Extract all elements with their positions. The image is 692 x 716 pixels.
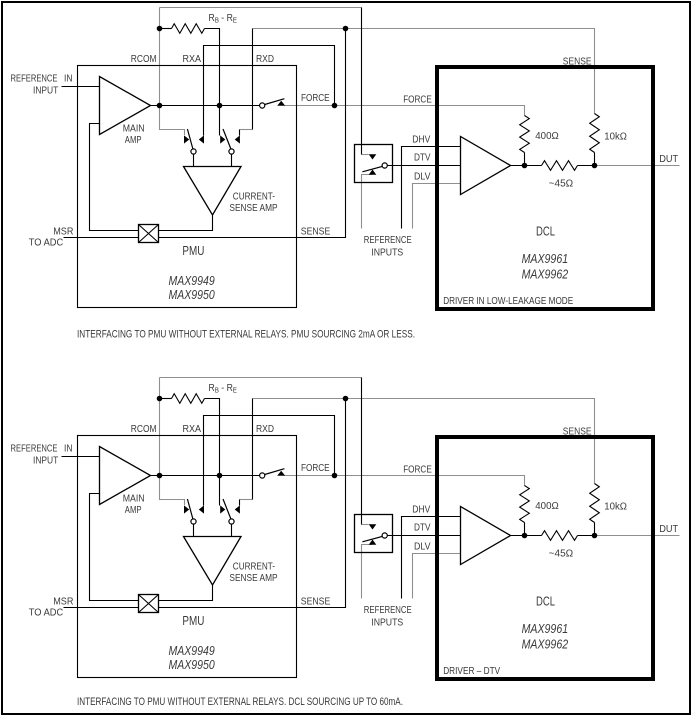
- svg-text:SENSE: SENSE: [301, 227, 331, 238]
- svg-text:RB - RE: RB - RE: [209, 13, 238, 25]
- svg-text:10kΩ: 10kΩ: [604, 502, 627, 513]
- svg-text:FORCE: FORCE: [403, 464, 432, 475]
- node DUT junction circuit 1: [592, 163, 598, 169]
- node SENSE to top net junction circuit 2: [343, 396, 349, 402]
- svg-text:RB - RE: RB - RE: [209, 383, 238, 395]
- svg-text:DTV: DTV: [414, 522, 431, 533]
- svg-text:MAX9950: MAX9950: [169, 287, 216, 302]
- svg-text:DTV: DTV: [414, 152, 431, 163]
- switch FORCE pole circle circuit 1: [260, 103, 265, 108]
- svg-text:MAIN: MAIN: [123, 124, 145, 135]
- wire RCOM to relay box vertical circuit 1: [361, 8, 363, 145]
- svg-text:RXD: RXD: [256, 424, 274, 435]
- switch S2 RXD contact wire circuit 2: [239, 500, 241, 506]
- wire S1 pole to current-sense amp circuit 1: [193, 154, 195, 166]
- switch S2 center contact arrow circuit 2: [220, 505, 225, 513]
- wire RXD vertical circuit 1: [252, 29, 254, 130]
- svg-text:FORCE: FORCE: [301, 463, 330, 474]
- svg-text:RCOM: RCOM: [131, 424, 157, 435]
- svg-text:RXD: RXD: [256, 54, 274, 65]
- svg-text:MAX9962: MAX9962: [522, 266, 569, 281]
- resistor RB-RE circuit 1: [160, 28, 172, 30]
- switch FORCE blade circuit 2: [265, 469, 285, 475]
- svg-text:DCL: DCL: [536, 224, 555, 239]
- svg-text:INPUTS: INPUTS: [371, 247, 403, 258]
- svg-text:AMP: AMP: [125, 135, 142, 146]
- node driver output junction circuit 2: [522, 533, 528, 539]
- switch S1 blade circuit 1: [187, 129, 193, 149]
- wire RXA to FORCE bypass circuit 1: [204, 46, 335, 136]
- op-amp main amp circuit 2: [100, 447, 151, 505]
- node driver output junction circuit 1: [522, 163, 528, 169]
- svg-text:PMU: PMU: [182, 613, 204, 628]
- relay K1 blade circuit 1: [362, 166, 382, 171]
- switch S2 center contact arrow circuit 1: [220, 135, 225, 143]
- svg-text:RXA: RXA: [183, 54, 202, 65]
- wire RXA to FORCE bypass circuit 2: [204, 416, 335, 506]
- DCL block MAX9961/MAX9962 circuit 2: [437, 437, 653, 679]
- DCL block MAX9961/MAX9962 circuit 1: [437, 67, 653, 309]
- wire RXD switch contact stub gray circuit 1: [240, 129, 253, 131]
- switch S1 RXA contact arrow circuit 1: [199, 135, 204, 143]
- PMU block MAX9949/MAX9950 circuit 2: [78, 436, 297, 678]
- wire driver output circuit 2: [511, 535, 542, 537]
- switch FORCE contact arrow circuit 1: [277, 101, 285, 106]
- svg-text:MAX9962: MAX9962: [522, 636, 569, 651]
- op-amp driver circuit 1: [461, 137, 511, 195]
- switch FORCE contact arrow circuit 2: [277, 471, 285, 476]
- svg-text:MAIN: MAIN: [123, 494, 145, 505]
- wire RXD vertical circuit 2: [252, 399, 254, 500]
- switch S2 center contact wire circuit 1: [219, 106, 221, 136]
- switch S1 pole circle circuit 2: [191, 519, 196, 524]
- svg-text:SENSE: SENSE: [563, 426, 592, 437]
- svg-text:400Ω: 400Ω: [535, 131, 559, 142]
- switch S2 blade circuit 1: [223, 129, 231, 149]
- svg-text:INTERFACING TO PMU WITHOUT EXT: INTERFACING TO PMU WITHOUT EXTERNAL RELA…: [77, 328, 415, 340]
- wire DLV reference input gray circuit 1: [413, 184, 461, 229]
- wire DHV reference input circuit 1: [402, 147, 461, 229]
- node RXA bypass junction on FORCE net circuit 2: [332, 473, 338, 479]
- svg-text:DRIVER – DTV: DRIVER – DTV: [443, 666, 500, 677]
- svg-text:MAX9949: MAX9949: [169, 643, 215, 658]
- node SENSE to top net junction circuit 1: [343, 26, 349, 32]
- svg-text:REFERENCE: REFERENCE: [364, 605, 412, 616]
- relay K1 pole circle circuit 1: [382, 163, 387, 168]
- svg-text:DUT: DUT: [659, 524, 679, 535]
- switch S2 RXD contact wire circuit 1: [239, 130, 241, 136]
- resistor 10k ohm circuit 1: [590, 114, 600, 153]
- node RB-RE tap junction circuit 1: [157, 26, 163, 32]
- svg-text:INPUT: INPUT: [33, 456, 59, 467]
- svg-text:~45Ω: ~45Ω: [549, 178, 574, 189]
- wire main amp feedback via measure block circuit 2: [90, 494, 139, 601]
- PMU block MAX9949/MAX9950 circuit 1: [78, 66, 297, 308]
- svg-text:DRIVER IN LOW-LEAKAGE MODE: DRIVER IN LOW-LEAKAGE MODE: [443, 296, 573, 307]
- relay K1 pole circle circuit 2: [382, 533, 387, 538]
- relay K1 lower contact arrow circuit 1: [369, 170, 377, 175]
- wire RXD switch contact stub gray circuit 2: [240, 499, 253, 501]
- svg-text:DLV: DLV: [414, 542, 431, 553]
- node RB-RE to output bus junction circuit 1: [217, 103, 223, 109]
- relay K1 upper contact feed wire circuit 2: [361, 515, 363, 525]
- svg-text:REFERENCE: REFERENCE: [364, 235, 412, 246]
- svg-text:MAX9949: MAX9949: [169, 273, 215, 288]
- node main amp output junction circuit 2: [157, 473, 163, 479]
- relay K1 blade circuit 2: [362, 536, 382, 541]
- svg-text:IN: IN: [64, 74, 73, 85]
- switch S1 blade circuit 2: [187, 499, 193, 519]
- wire S2 pole to current-sense amp circuit 1: [231, 154, 233, 166]
- wire S2 pole to current-sense amp circuit 2: [231, 524, 233, 536]
- resistor ~45 ohm circuit 2: [542, 531, 578, 541]
- svg-text:RXA: RXA: [183, 424, 202, 435]
- svg-text:INTERFACING TO PMU WITHOUT EXT: INTERFACING TO PMU WITHOUT EXTERNAL RELA…: [77, 696, 403, 708]
- resistor RB-RE circuit 2: [160, 398, 172, 400]
- svg-text:MAX9961: MAX9961: [522, 251, 569, 266]
- wire RCOM top net gray circuit 2: [160, 377, 362, 379]
- node RB-RE to output bus junction circuit 2: [217, 473, 223, 479]
- wire main amp output bus circuit 2: [151, 475, 260, 477]
- svg-text:CURRENT-: CURRENT-: [233, 191, 275, 202]
- resistor 400 ohm circuit 2: [520, 486, 530, 523]
- wire RCOM vertical to left switch contact circuit 2: [160, 378, 185, 506]
- svg-text:FORCE: FORCE: [301, 93, 330, 104]
- relay K1 upper contact arrow circuit 1: [369, 154, 377, 159]
- svg-text:CURRENT-: CURRENT-: [233, 561, 275, 572]
- wire main amp feedback via measure block circuit 1: [90, 124, 139, 231]
- switch S2 pole circle circuit 1: [229, 149, 234, 154]
- switch S2 RXD contact arrow circuit 1: [235, 135, 240, 143]
- svg-text:SENSE AMP: SENSE AMP: [229, 203, 277, 214]
- switch FORCE blade circuit 1: [265, 99, 285, 105]
- node RXA bypass junction on FORCE net circuit 1: [332, 103, 338, 109]
- svg-text:DHV: DHV: [412, 504, 430, 515]
- wire DLV reference input gray circuit 2: [413, 554, 461, 599]
- wire relay pole to DTV circuit 2: [387, 535, 460, 537]
- svg-text:~45Ω: ~45Ω: [549, 548, 574, 559]
- wire relay upper contact jog gray circuit 1: [362, 154, 369, 156]
- node DUT junction circuit 2: [592, 533, 598, 539]
- wire relay lower contact to reference input stub gray circuit 2: [362, 545, 373, 599]
- svg-text:DUT: DUT: [659, 154, 679, 165]
- wire MSR / SENSE net circuit 1: [64, 29, 346, 238]
- wire RXD to DCL SENSE net gray circuit 1: [253, 29, 595, 114]
- svg-text:DCL: DCL: [536, 594, 555, 609]
- wire RXD to DCL SENSE net gray circuit 2: [253, 399, 595, 484]
- relay K1 reference selector box circuit 1: [355, 145, 393, 183]
- wire DHV reference input circuit 2: [402, 517, 461, 599]
- wire RCOM vertical to left switch contact circuit 1: [160, 8, 185, 136]
- svg-text:DHV: DHV: [412, 134, 430, 145]
- svg-text:TO ADC: TO ADC: [29, 238, 64, 249]
- relay K1 upper contact arrow circuit 2: [369, 524, 377, 529]
- wire reference input circuit 1: [62, 86, 100, 88]
- wire relay pole to DTV circuit 1: [387, 165, 460, 167]
- wire driver output circuit 1: [511, 165, 542, 167]
- wire FORCE net gray to 400ohm circuit 2: [285, 476, 525, 486]
- resistor 400 ohm circuit 1: [520, 116, 530, 153]
- svg-text:SENSE: SENSE: [301, 597, 331, 608]
- switch S1 left contact arrow circuit 2: [184, 505, 189, 513]
- wire MSR / SENSE net circuit 2: [64, 399, 346, 608]
- op-amp driver circuit 2: [461, 507, 511, 565]
- svg-text:FORCE: FORCE: [403, 94, 432, 105]
- svg-text:SENSE: SENSE: [563, 56, 592, 67]
- switch S2 blade circuit 2: [223, 499, 231, 519]
- svg-text:REFERENCE: REFERENCE: [11, 74, 58, 85]
- wire reference input circuit 2: [62, 456, 100, 458]
- node main amp output junction circuit 1: [157, 103, 163, 109]
- wire RCOM to relay box vertical circuit 2: [361, 378, 363, 515]
- wire DUT output gray circuit 1: [595, 165, 680, 167]
- svg-text:MSR: MSR: [53, 596, 73, 607]
- svg-text:MSR: MSR: [53, 226, 73, 237]
- svg-text:MAX9961: MAX9961: [522, 621, 569, 636]
- relay K1 lower contact arrow circuit 2: [369, 540, 377, 545]
- svg-text:RCOM: RCOM: [131, 54, 157, 65]
- measure block crossed square MSR circuit 2: [139, 595, 159, 613]
- relay K1 upper contact feed wire circuit 1: [361, 145, 363, 155]
- switch S1 RXA contact arrow circuit 2: [199, 505, 204, 513]
- svg-text:10kΩ: 10kΩ: [604, 132, 627, 143]
- switch S1 left contact arrow circuit 1: [184, 135, 189, 143]
- svg-text:PMU: PMU: [182, 243, 204, 258]
- node RB-RE tap junction circuit 2: [157, 396, 163, 402]
- svg-text:INPUTS: INPUTS: [371, 617, 403, 628]
- switch S2 pole circle circuit 2: [229, 519, 234, 524]
- svg-text:SENSE AMP: SENSE AMP: [229, 573, 277, 584]
- resistor ~45 ohm circuit 1: [542, 161, 578, 171]
- svg-text:REFERENCE: REFERENCE: [11, 444, 58, 455]
- switch S1 pole circle circuit 1: [191, 149, 196, 154]
- resistor 10k ohm circuit 2: [590, 484, 600, 523]
- wire relay lower contact to reference input stub gray circuit 1: [362, 175, 373, 229]
- svg-text:IN: IN: [64, 444, 73, 455]
- svg-text:TO ADC: TO ADC: [29, 608, 64, 619]
- svg-text:400Ω: 400Ω: [535, 501, 559, 512]
- measure block crossed square MSR circuit 1: [139, 225, 159, 243]
- relay K1 reference selector box circuit 2: [355, 515, 393, 553]
- wire relay upper contact jog gray circuit 2: [362, 524, 369, 526]
- switch S2 RXD contact arrow circuit 2: [235, 505, 240, 513]
- svg-text:DLV: DLV: [414, 172, 431, 183]
- wire DUT output gray circuit 2: [595, 535, 680, 537]
- op-amp current-sense amp circuit 2: [184, 537, 242, 586]
- svg-text:INPUT: INPUT: [33, 86, 59, 97]
- switch S2 center contact wire circuit 2: [219, 476, 221, 506]
- wire RCOM top net gray circuit 1: [160, 7, 362, 9]
- switch FORCE pole circle circuit 2: [260, 473, 265, 478]
- op-amp current-sense amp circuit 1: [184, 167, 242, 216]
- wire main amp output bus circuit 1: [151, 105, 260, 107]
- svg-text:AMP: AMP: [125, 505, 142, 516]
- svg-text:MAX9950: MAX9950: [169, 657, 216, 672]
- op-amp main amp circuit 1: [100, 77, 151, 135]
- wire FORCE net gray to 400ohm circuit 1: [285, 106, 525, 116]
- wire S1 pole to current-sense amp circuit 2: [193, 524, 195, 536]
